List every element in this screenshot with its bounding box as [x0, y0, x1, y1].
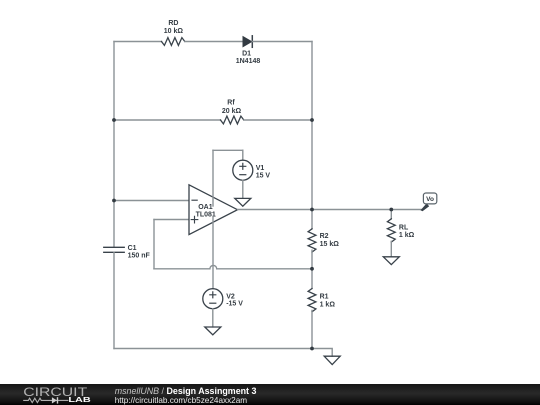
ground V2 [205, 327, 221, 335]
wire RD to D1 [185, 41, 243, 43]
svg-text:R1: R1 [320, 294, 329, 301]
wire left rail: inverting node down to C1 [113, 201, 115, 248]
wire right rail: Rf node down to output node [311, 120, 313, 210]
voltage source V1 [233, 160, 271, 180]
wire output: op-amp to R2 node [238, 209, 313, 211]
resistor RD [162, 20, 185, 46]
svg-text:-15 V: -15 V [226, 301, 243, 308]
wire C1 down to bottom-left corner [113, 252, 115, 348]
capacitor C1 [104, 245, 151, 259]
credit text [115, 387, 257, 405]
svg-text:10 kΩ: 10 kΩ [164, 28, 184, 35]
junction R1 / bottom net [310, 347, 314, 351]
wire V+ loop top [213, 149, 243, 151]
wire V1 to ground [242, 180, 244, 198]
junction output / RL [389, 208, 393, 212]
wire feedback left vertical [153, 220, 155, 269]
svg-text:V2: V2 [226, 293, 235, 300]
svg-text:C1: C1 [128, 245, 137, 252]
wire op-amp V- pin stub [212, 218, 214, 289]
svg-text:OA1: OA1 [198, 204, 213, 211]
ground bottom net [324, 356, 340, 364]
voltage source V2 [203, 289, 243, 309]
svg-text:LAB: LAB [68, 395, 90, 404]
svg-text:1 kΩ: 1 kΩ [320, 302, 336, 309]
footer bar [0, 384, 540, 405]
resistor R1 [308, 289, 335, 312]
junction left rail / inverting input [112, 199, 116, 203]
svg-text:15 V: 15 V [256, 173, 271, 180]
wire R1 to bottom net [311, 310, 313, 348]
wire output: R2 node to RL node [312, 209, 391, 211]
junction left rail / Rf [112, 118, 116, 122]
diode D1 [236, 36, 261, 65]
wire Rf to right rail [244, 119, 312, 121]
wire inverting input [114, 200, 189, 202]
wire V+ loop down to V1 [242, 150, 244, 160]
wire output: RL node to Vo flag [391, 209, 421, 211]
svg-text:150 nF: 150 nF [128, 252, 151, 259]
CircuitLab logo [0, 384, 100, 405]
wire bottom net: left corner to R1 node [114, 348, 312, 350]
wire left rail: Rf node to inverting-input node [113, 120, 115, 201]
node Vo flag [421, 193, 437, 211]
wire bottom net: R1 node to ground jog [312, 349, 332, 357]
junction right rail / Rf [310, 118, 314, 122]
svg-text:Rf: Rf [227, 100, 235, 107]
wire D1 to top-right corner [252, 41, 312, 43]
svg-text:15 kΩ: 15 kΩ [320, 241, 340, 248]
ground RL [383, 257, 399, 265]
wire right rail: corner down to Rf node [311, 42, 313, 121]
wire mid node to R1 [311, 269, 313, 289]
wire left rail: top corner down to Rf node [113, 42, 115, 121]
op-amp OA1 [189, 185, 238, 235]
svg-text:1N4148: 1N4148 [236, 58, 261, 65]
junction right rail / output [310, 208, 314, 212]
resistor Rf [221, 100, 244, 124]
svg-text:1 kΩ: 1 kΩ [399, 232, 415, 239]
wire RL to ground [390, 241, 392, 256]
wire top net: left rail top corner to RD [114, 41, 162, 43]
svg-text:D1: D1 [242, 50, 251, 57]
ground V1 [235, 198, 251, 206]
wire R2 to mid node [311, 250, 313, 269]
wire R2 branch top [311, 210, 313, 229]
wire RL branch top [390, 210, 392, 219]
svg-text:R2: R2 [320, 233, 329, 240]
wire feedback bottom with hop over V- lead [154, 265, 312, 268]
resistor RL [387, 219, 414, 242]
svg-text:RD: RD [168, 20, 178, 27]
svg-text:V1: V1 [256, 165, 265, 172]
svg-text:Vo: Vo [426, 196, 434, 203]
wire op-amp V+ pin stub [212, 150, 214, 206]
wire V2 to ground [212, 309, 214, 327]
resistor R2 [308, 229, 339, 252]
svg-text:RL: RL [399, 225, 409, 232]
junction R2 / R1 / feedback [310, 267, 314, 271]
svg-text:20 kΩ: 20 kΩ [222, 108, 242, 115]
wire Rf net: left node to Rf [114, 119, 221, 121]
wire non-inverting input to feedback corner [154, 219, 189, 221]
